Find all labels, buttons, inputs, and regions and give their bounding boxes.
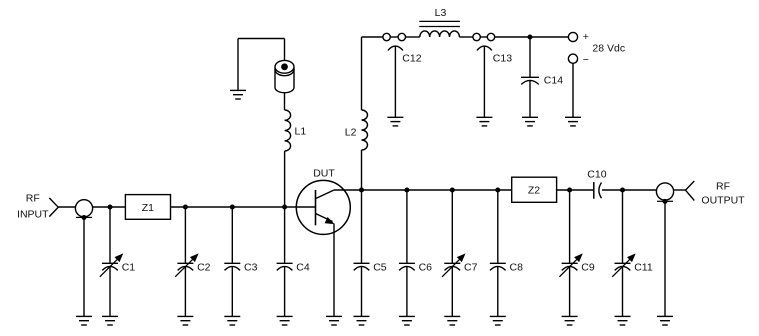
capacitor C2 (variable): [175, 207, 210, 325]
label 28 Vdc: [592, 43, 625, 55]
capacitor C9 (variable): [559, 190, 594, 325]
svg-text:C7: C7: [464, 261, 478, 273]
node C1 tap: [108, 205, 113, 210]
ground emitter: [326, 316, 342, 325]
node C11 tap: [620, 188, 625, 193]
ground C13: [476, 117, 492, 126]
capacitor C11 (variable): [612, 190, 653, 325]
wire FT1 to L1: [284, 93, 286, 110]
node C9 tap: [567, 188, 572, 193]
svg-text:28 Vdc: 28 Vdc: [592, 43, 625, 55]
svg-text:C10: C10: [587, 168, 606, 180]
wire J1 to Z1: [93, 206, 126, 208]
capacitor C1 (variable): [100, 207, 135, 325]
svg-text:C4: C4: [296, 261, 310, 273]
svg-text:Z2: Z2: [528, 185, 540, 197]
svg-text:C1: C1: [122, 261, 136, 273]
capacitor C12 (feedthrough): [383, 33, 422, 117]
ground - terminal: [565, 117, 581, 126]
wire rail to L2: [361, 37, 363, 110]
node C3 tap: [230, 205, 235, 210]
ground top-left: [230, 90, 246, 99]
ground J1: [76, 316, 92, 325]
connector J1 input: [75, 200, 92, 220]
capacitor C8: [490, 190, 523, 325]
capacitor C4: [277, 207, 310, 325]
ground C14: [522, 117, 538, 126]
node C2 tap: [183, 205, 188, 210]
svg-text:L3: L3: [435, 7, 447, 19]
wire - terminal to ground: [572, 63, 574, 117]
node C7 tap: [450, 188, 455, 193]
terminal + 28 Vdc: [568, 31, 588, 43]
wire collector to Z2: [334, 189, 512, 191]
terminal - 28 Vdc return: [568, 54, 588, 66]
svg-text:C11: C11: [634, 261, 653, 273]
svg-text:C3: C3: [244, 261, 258, 273]
svg-text:−: −: [583, 54, 589, 66]
svg-text:L1: L1: [295, 125, 307, 137]
svg-text:RF: RF: [26, 192, 40, 204]
impedance network Z2: [512, 177, 557, 202]
svg-text:C14: C14: [544, 75, 563, 87]
label DUT: [313, 168, 335, 180]
label RF OUTPUT: [701, 180, 745, 206]
capacitor C3: [224, 207, 257, 325]
wire L1 to base node: [284, 151, 286, 207]
wire L2 to collector node: [361, 150, 363, 190]
svg-text:C8: C8: [510, 261, 524, 273]
node C4/L1 tap: [282, 205, 287, 210]
wire emitter to ground: [333, 224, 335, 317]
inductor L3: [419, 7, 460, 37]
node supply junction: [528, 35, 533, 40]
svg-text:RF: RF: [716, 180, 730, 192]
capacitor C10 (series): [587, 168, 606, 198]
wire top rail: [362, 36, 569, 38]
wire J2 to chevron: [674, 189, 686, 191]
capacitor C14: [521, 37, 563, 117]
capacitor C7 (variable): [442, 190, 477, 325]
output chevron: [686, 181, 695, 201]
svg-text:INPUT: INPUT: [17, 209, 49, 221]
svg-text:DUT: DUT: [313, 168, 335, 180]
svg-text:+: +: [583, 31, 589, 43]
wire J2 shell to ground: [664, 203, 666, 316]
inductor L1: [285, 110, 307, 151]
capacitor C6: [399, 190, 432, 325]
input chevron: [49, 198, 58, 217]
svg-text:C13: C13: [493, 53, 512, 65]
label RF INPUT: [17, 192, 49, 220]
inductor L2: [345, 110, 368, 150]
node C6 tap: [404, 188, 409, 193]
node collector/L2 junction: [359, 188, 364, 193]
wire chevron to connector J1: [58, 206, 75, 208]
wire Z2 to C10: [557, 189, 594, 191]
feedthrough capacitor FT1 (cylinder): [275, 60, 294, 92]
wire Z1 to base: [171, 206, 316, 208]
capacitor C13 (feedthrough): [473, 33, 512, 117]
svg-text:C2: C2: [197, 261, 211, 273]
ground C12: [387, 117, 403, 126]
capacitor C5: [354, 190, 387, 325]
wire top-left feedthrough branch: [238, 39, 285, 91]
svg-text:L2: L2: [345, 127, 357, 139]
svg-text:C9: C9: [581, 261, 595, 273]
svg-text:C6: C6: [419, 261, 433, 273]
svg-text:Z1: Z1: [142, 202, 154, 214]
connector J2 output: [656, 183, 673, 204]
transistor DUT (device under test): [296, 180, 350, 234]
ground J2: [657, 316, 673, 325]
svg-text:C5: C5: [373, 261, 387, 273]
svg-text:OUTPUT: OUTPUT: [701, 195, 745, 207]
impedance network Z1: [125, 195, 170, 220]
wire J1 shell to ground: [83, 219, 85, 316]
node C8 tap: [495, 188, 500, 193]
wire C10 to J2: [602, 189, 656, 191]
svg-text:C12: C12: [402, 53, 421, 65]
